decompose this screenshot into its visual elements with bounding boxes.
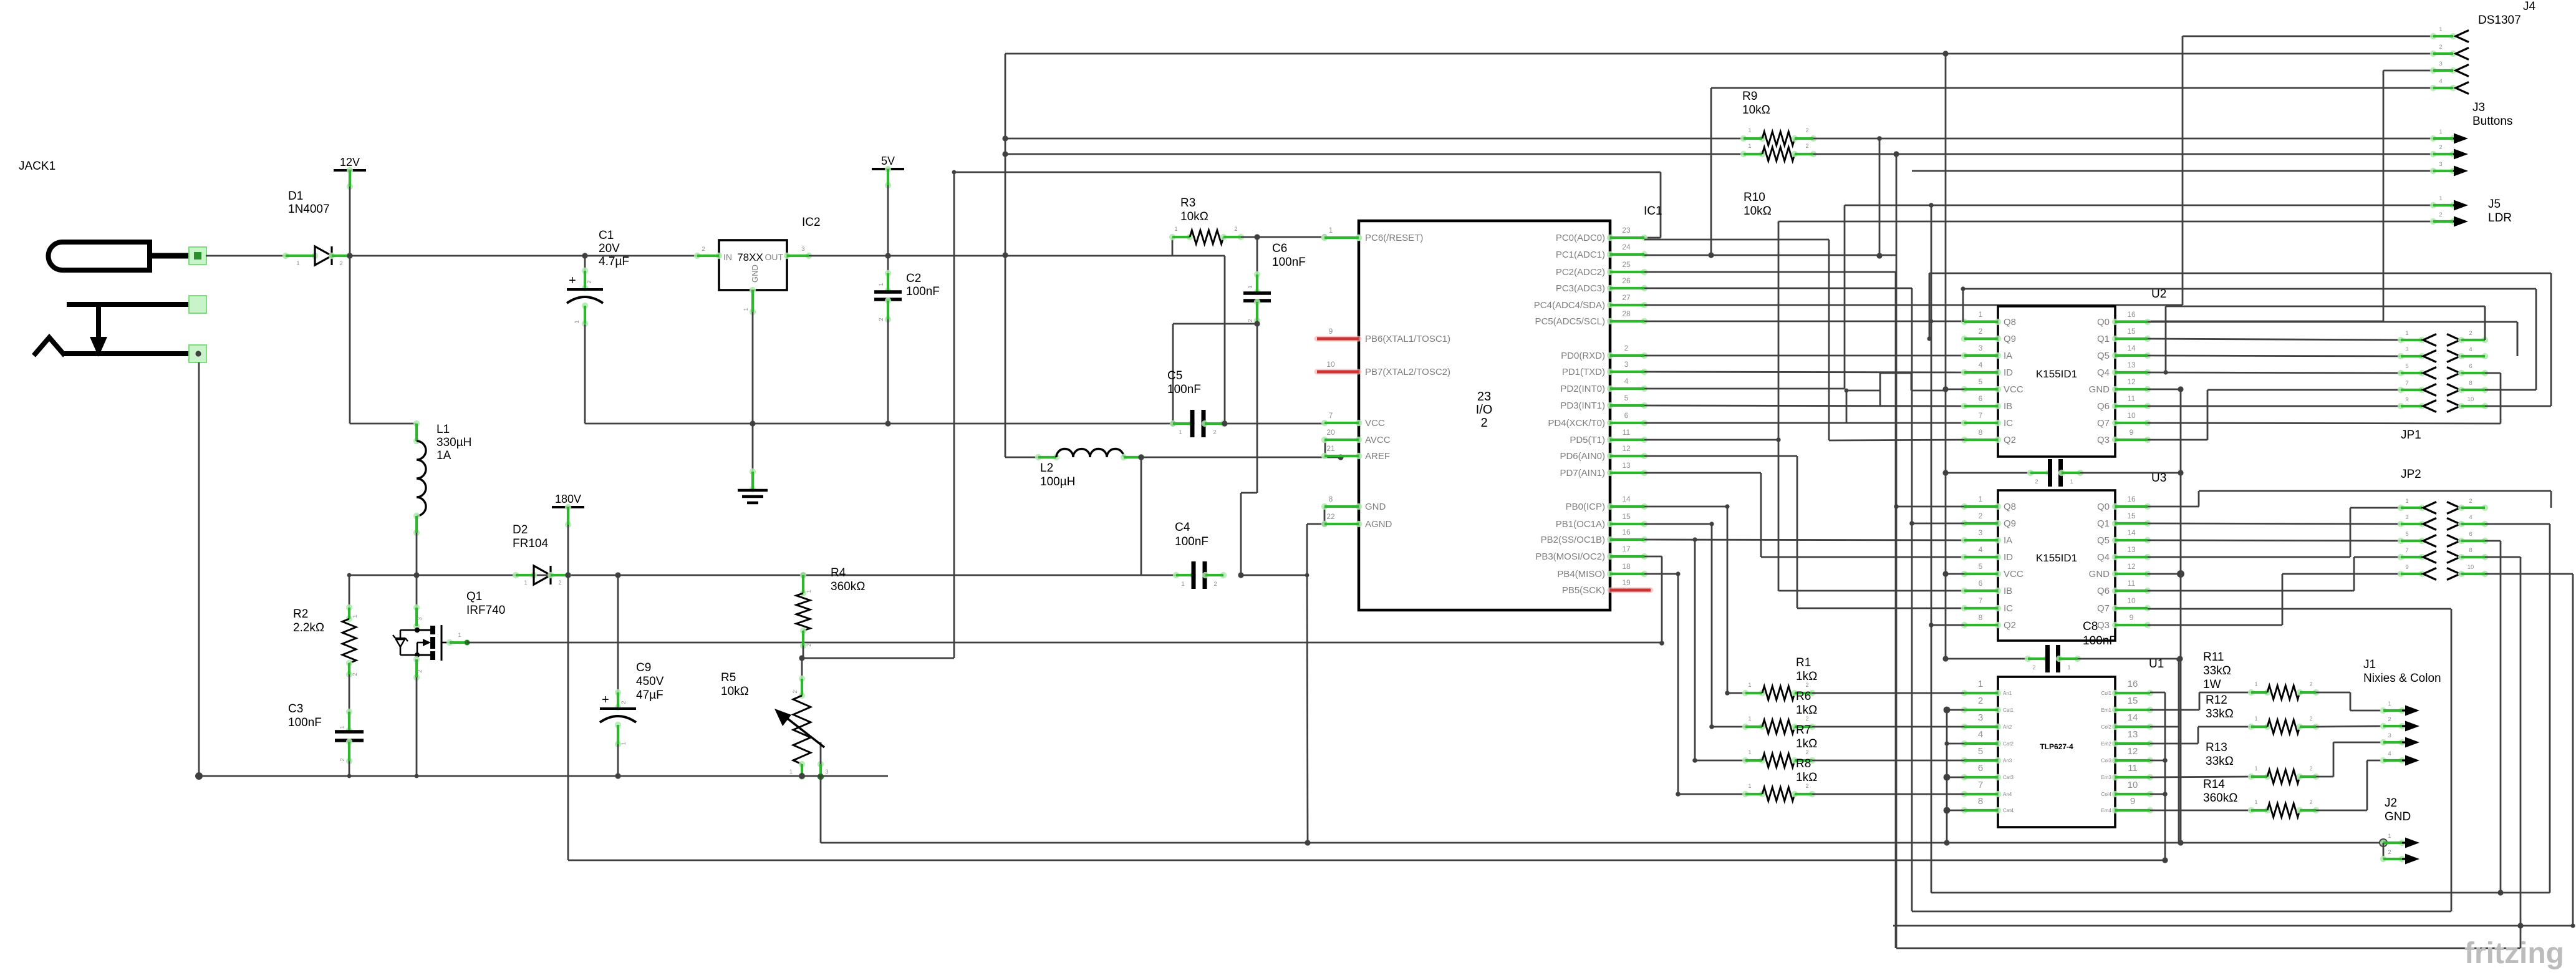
pin 2 U2 Q9 xyxy=(1961,336,1967,342)
svg-text:28: 28 xyxy=(1622,309,1631,318)
wire L1 to boost node xyxy=(416,533,418,575)
wire C6 to gnd loop xyxy=(1173,323,1257,325)
svg-text:1kΩ: 1kΩ xyxy=(1796,737,1817,750)
svg-text:R7: R7 xyxy=(1796,724,1811,737)
svg-text:1: 1 xyxy=(1979,310,1983,319)
wire PC4 to J4.1 xyxy=(1644,304,2183,306)
svg-text:5: 5 xyxy=(1978,746,1983,757)
wire PD2 to J5.1 xyxy=(1644,388,1845,390)
wire PC5 loop down xyxy=(1931,205,1932,893)
pin 15 U1 Em1 xyxy=(2112,707,2118,713)
wire VCC feed xyxy=(1225,423,1324,425)
svg-text:PD4(XCK/T0): PD4(XCK/T0) xyxy=(1548,418,1605,429)
pin 15 PB1(OC1A) xyxy=(1607,521,1613,527)
svg-text:C2: C2 xyxy=(906,272,921,285)
svg-text:1: 1 xyxy=(1181,581,1184,588)
svg-text:IC1: IC1 xyxy=(1644,205,1662,218)
wire bottom loop 3 xyxy=(1893,925,2573,927)
svg-text:1A: 1A xyxy=(437,449,451,462)
node C5 5V junction xyxy=(1222,420,1227,426)
svg-text:2: 2 xyxy=(1805,749,1808,756)
pin 7 U3 IC xyxy=(1961,605,1967,611)
svg-text:1: 1 xyxy=(2067,664,2070,671)
pin 2 J3 xyxy=(2430,151,2436,157)
svg-text:GND: GND xyxy=(2089,569,2110,580)
svg-text:33kΩ: 33kΩ xyxy=(2206,707,2234,720)
svg-text:100µH: 100µH xyxy=(1040,475,1075,488)
svg-text:Q2: Q2 xyxy=(2004,620,2016,631)
wire bottom gnd rail xyxy=(198,362,200,776)
wire PC2 loop xyxy=(1644,271,1896,273)
pin 4 J1 xyxy=(2380,757,2386,764)
svg-text:2: 2 xyxy=(1247,319,1254,322)
pin 5 PD3(INT1) xyxy=(1607,402,1613,409)
svg-text:Q3: Q3 xyxy=(2097,620,2110,631)
svg-text:100nF: 100nF xyxy=(1167,383,1201,396)
svg-text:11: 11 xyxy=(2128,579,2136,588)
svg-text:R9: R9 xyxy=(1742,90,1757,103)
svg-text:10: 10 xyxy=(2467,564,2474,571)
svg-text:2: 2 xyxy=(558,580,561,586)
wire U3 Q8 loop xyxy=(1896,506,1964,508)
svg-text:2: 2 xyxy=(1805,127,1808,134)
svg-text:R14: R14 xyxy=(2203,778,2225,791)
svg-text:3: 3 xyxy=(1978,712,1983,723)
pin 4 U3 ID xyxy=(1961,554,1967,560)
svg-text:78XX: 78XX xyxy=(737,251,763,263)
pin 1 J4 xyxy=(2430,33,2436,39)
svg-text:C4: C4 xyxy=(1175,521,1190,534)
wire R5 to cathode rail xyxy=(820,777,822,843)
wire Em4 to R14 xyxy=(2150,810,2251,812)
pin 10 JP1 xyxy=(2447,400,2460,412)
wire U3 Q3 to JP2.9 xyxy=(2148,624,2282,626)
wire PB4 to R8 xyxy=(1644,573,1678,575)
wire PD4 to U2 IC xyxy=(1644,422,1964,424)
svg-text:C3: C3 xyxy=(288,702,303,715)
svg-text:4: 4 xyxy=(2388,750,2391,757)
wire JP1.10 jog xyxy=(2485,405,2551,407)
svg-text:An1: An1 xyxy=(2003,691,2012,696)
svg-text:Em3: Em3 xyxy=(2101,775,2112,780)
pin 3 JP2 xyxy=(2398,521,2404,527)
wiper arrow xyxy=(782,714,824,747)
pin 14 U1 Col2 xyxy=(2112,724,2118,730)
svg-text:2: 2 xyxy=(2388,716,2391,723)
svg-text:2: 2 xyxy=(2032,664,2035,671)
svg-text:9: 9 xyxy=(2405,564,2408,571)
svg-text:PB6(XTAL1/TOSC1): PB6(XTAL1/TOSC1) xyxy=(1365,334,1450,344)
svg-text:R11: R11 xyxy=(2203,651,2224,664)
wire U2 Q2 out xyxy=(1829,440,1964,440)
node C4 gnd junction xyxy=(1238,572,1243,578)
pin 2 J4 xyxy=(2430,51,2436,57)
power symbol 180V xyxy=(552,506,584,508)
wire U2 Q4 to JP1.5 and JP1.2 xyxy=(2148,372,2401,373)
svg-text:D1: D1 xyxy=(288,190,303,203)
svg-text:4: 4 xyxy=(2439,78,2442,85)
wire PB1 to R6 xyxy=(1644,523,1712,525)
pin 16 U1 Col1 xyxy=(2112,690,2118,696)
svg-text:Q5: Q5 xyxy=(2097,535,2110,546)
pin 14 PB0(ICP) xyxy=(1607,503,1613,510)
svg-text:180V: 180V xyxy=(555,493,581,505)
pin 11 U1 Em3 xyxy=(2112,774,2118,780)
svg-text:Q8: Q8 xyxy=(2004,502,2016,512)
svg-text:Buttons: Buttons xyxy=(2472,115,2512,128)
node 12V junction xyxy=(347,253,352,258)
node D2 cathode junction xyxy=(565,572,571,578)
node AREF junction xyxy=(1338,454,1343,460)
node C5 gnd junction xyxy=(1170,420,1175,426)
svg-text:Q1: Q1 xyxy=(2097,334,2110,344)
pin 11 U2 Q6 xyxy=(2112,403,2118,409)
wire 5V vertical bus x1612 xyxy=(1005,54,1006,457)
svg-text:Col1: Col1 xyxy=(2101,691,2112,696)
pin 3 J4 xyxy=(2430,67,2436,74)
svg-text:1: 1 xyxy=(1329,226,1333,235)
pin 3 J3 xyxy=(2430,168,2436,174)
wire U2 Q0 to JP1.4 xyxy=(2148,321,2517,323)
svg-text:GND: GND xyxy=(1365,502,1386,512)
svg-text:100nF: 100nF xyxy=(1175,535,1208,548)
svg-text:U1: U1 xyxy=(2149,657,2164,671)
svg-text:7: 7 xyxy=(1979,411,1983,420)
pin 7 U1 An4 xyxy=(1961,791,1967,797)
svg-text:GND: GND xyxy=(750,264,760,283)
svg-text:GND: GND xyxy=(2385,810,2411,823)
svg-text:2: 2 xyxy=(1805,143,1808,150)
svg-text:1: 1 xyxy=(1978,679,1983,689)
svg-text:7: 7 xyxy=(2405,547,2408,554)
svg-text:J3: J3 xyxy=(2472,101,2485,114)
pin 4 PD2(INT0) xyxy=(1607,386,1613,392)
svg-text:PB4(MISO): PB4(MISO) xyxy=(1557,569,1605,580)
svg-text:C1: C1 xyxy=(599,229,614,242)
wire boost node rail xyxy=(349,575,1141,576)
svg-text:R4: R4 xyxy=(831,566,846,580)
pin 9 JP2 xyxy=(2398,571,2404,577)
svg-text:2: 2 xyxy=(1805,715,1808,722)
svg-text:6: 6 xyxy=(1624,411,1629,420)
svg-text:3: 3 xyxy=(825,769,828,775)
svg-text:1kΩ: 1kΩ xyxy=(1796,670,1817,683)
svg-text:PD1(TXD): PD1(TXD) xyxy=(1562,367,1605,377)
svg-text:PD3(INT1): PD3(INT1) xyxy=(1560,400,1605,411)
svg-text:2: 2 xyxy=(2309,715,2312,722)
svg-text:100nF: 100nF xyxy=(288,716,322,729)
pin 2 U3 Q9 xyxy=(1961,520,1967,526)
svg-text:1kΩ: 1kΩ xyxy=(1796,771,1817,784)
pin 5 U3 VCC xyxy=(1961,571,1967,577)
svg-text:2: 2 xyxy=(2439,144,2442,151)
svg-text:13: 13 xyxy=(2128,729,2138,740)
pin 18 PB4(MISO) xyxy=(1607,571,1613,577)
svg-text:7: 7 xyxy=(1978,780,1983,790)
gnd bus vertical xyxy=(2180,389,2182,843)
svg-text:25: 25 xyxy=(1622,260,1631,269)
pin 13 U3 Q4 xyxy=(2112,554,2118,560)
wire 180V anode rail xyxy=(568,860,2165,861)
pin 6 U3 IB xyxy=(1961,588,1967,594)
pin 8 U3 Q2 xyxy=(1961,622,1967,628)
svg-text:17: 17 xyxy=(1622,545,1631,553)
wire jack tip to D1 xyxy=(206,255,301,257)
pin 15 U3 Q1 xyxy=(2112,520,2118,526)
svg-text:1: 1 xyxy=(339,725,346,729)
pin 7 VCC xyxy=(1321,420,1328,426)
pin 6 U2 IB xyxy=(1961,403,1967,409)
svg-text:Em4: Em4 xyxy=(2101,808,2112,813)
svg-text:R6: R6 xyxy=(1796,690,1811,703)
pin 3 U2 IA xyxy=(1961,352,1967,359)
svg-text:C8: C8 xyxy=(2083,620,2098,633)
svg-text:J5: J5 xyxy=(2488,198,2501,211)
wire U2 Q1 to JP1.1 xyxy=(2148,339,2401,340)
pin 6 JP2 xyxy=(2447,535,2460,547)
wire C4 to AGND xyxy=(1241,575,1307,576)
svg-text:PB0(ICP): PB0(ICP) xyxy=(1566,502,1605,512)
pin 1 JP2 xyxy=(2398,505,2404,511)
pin 5 U1 An3 xyxy=(1961,757,1967,764)
pin 25 PC2(ADC2) xyxy=(1607,269,1613,275)
svg-text:1: 1 xyxy=(2388,701,2391,707)
svg-text:2: 2 xyxy=(1480,416,1487,430)
svg-text:DS1307: DS1307 xyxy=(2478,14,2521,27)
wire 5V to R10 xyxy=(1005,153,1744,155)
wire J3.1 to PC1 xyxy=(1879,138,1881,256)
wire U2 Q8 over xyxy=(1962,289,1964,322)
pin 21 AREF xyxy=(1321,453,1328,459)
node gnd rail junction xyxy=(750,420,755,426)
svg-text:IRF740: IRF740 xyxy=(466,604,505,617)
pin 14 U2 Q5 xyxy=(2112,352,2118,359)
pin 12 U3 GND xyxy=(2112,571,2118,577)
pin 3 PD1(TXD) xyxy=(1607,369,1613,375)
svg-text:16: 16 xyxy=(2127,495,2136,503)
wire U2 VCC bus xyxy=(1945,54,1947,659)
pin 2 JP1 xyxy=(2447,334,2460,346)
svg-text:Q2: Q2 xyxy=(2004,435,2016,445)
pin 11 PD5(T1) xyxy=(1607,437,1613,443)
svg-text:9: 9 xyxy=(1329,327,1333,336)
svg-text:An2: An2 xyxy=(2003,724,2012,730)
svg-text:IB: IB xyxy=(2004,401,2012,412)
wire U3 Q2 loop xyxy=(1931,624,1964,626)
node 5V junction xyxy=(885,253,890,258)
pin 1 U3 Q8 xyxy=(1961,503,1967,510)
pin 1 J1 xyxy=(2380,707,2386,714)
svg-text:1: 1 xyxy=(2070,478,2073,485)
pin 1 PC6(/RESET) xyxy=(1321,235,1328,241)
svg-text:+: + xyxy=(569,274,576,288)
svg-text:100nF: 100nF xyxy=(2083,634,2116,648)
svg-text:4.7µF: 4.7µF xyxy=(599,255,629,268)
wire 12V to node xyxy=(349,187,351,256)
svg-text:PB1(OC1A): PB1(OC1A) xyxy=(1556,519,1605,530)
svg-text:1: 1 xyxy=(2254,715,2257,722)
pin 10 PB7(XTAL2/TOSC2) xyxy=(1317,369,1359,375)
svg-text:2.2kΩ: 2.2kΩ xyxy=(293,621,324,634)
svg-text:Q8: Q8 xyxy=(2004,317,2016,327)
pin 2 J2 xyxy=(2383,843,2385,859)
wire gate to OC2 xyxy=(467,642,1662,644)
svg-text:R5: R5 xyxy=(721,671,736,684)
wire PD6 to U3 IC xyxy=(1644,455,1797,457)
pin 15 U2 Q1 xyxy=(2112,336,2118,342)
svg-text:6: 6 xyxy=(2469,531,2472,538)
svg-text:+: + xyxy=(602,693,609,707)
svg-text:1: 1 xyxy=(1748,127,1751,134)
svg-text:2: 2 xyxy=(1805,682,1808,689)
svg-text:4: 4 xyxy=(2469,346,2472,353)
svg-text:2: 2 xyxy=(417,669,423,672)
pin 1 J2 xyxy=(2379,838,2388,847)
svg-text:2: 2 xyxy=(1213,581,1217,588)
svg-text:GND: GND xyxy=(2089,384,2110,395)
svg-text:10: 10 xyxy=(2127,411,2136,420)
svg-text:Q6: Q6 xyxy=(2097,401,2110,412)
node bottom-left corner xyxy=(195,772,203,780)
svg-text:U3: U3 xyxy=(2151,472,2166,485)
svg-text:12: 12 xyxy=(2128,746,2138,757)
wire JP2.4 riser xyxy=(2485,523,2550,525)
wire U2 GND xyxy=(2148,389,2181,390)
svg-text:1: 1 xyxy=(2405,498,2408,505)
wire U2 Q6 to JP1.9 xyxy=(2148,405,2401,407)
svg-text:13: 13 xyxy=(2127,361,2136,369)
svg-text:5: 5 xyxy=(1624,394,1629,402)
wire PB2 to R7 and U3 IA xyxy=(1644,540,1964,540)
wire IC2 gnd down xyxy=(752,312,754,478)
wire JP2.10 riser xyxy=(2485,573,2573,575)
svg-text:VCC: VCC xyxy=(2004,569,2024,580)
svg-text:450V: 450V xyxy=(636,675,664,688)
svg-text:2: 2 xyxy=(339,758,346,761)
wire IC2 out to 5V rail xyxy=(809,255,1225,257)
power symbol 5V xyxy=(872,168,904,170)
jack ring contact xyxy=(67,302,195,307)
svg-text:19: 19 xyxy=(1622,578,1631,587)
pin 16 PB2(SS/OC1B) xyxy=(1607,536,1613,543)
svg-text:PD2(INT0): PD2(INT0) xyxy=(1560,384,1605,394)
svg-text:12: 12 xyxy=(2127,377,2136,386)
svg-text:PD7(AIN1): PD7(AIN1) xyxy=(1560,468,1605,478)
svg-text:3: 3 xyxy=(1624,360,1629,369)
svg-text:16: 16 xyxy=(1622,528,1631,536)
pin 2 J5 xyxy=(2430,218,2436,225)
svg-text:8: 8 xyxy=(1329,495,1333,503)
svg-text:7: 7 xyxy=(1329,411,1333,420)
pin 8 JP2 xyxy=(2447,551,2460,563)
svg-text:5: 5 xyxy=(2405,531,2408,538)
wire JP1.4 riser xyxy=(2517,322,2519,356)
svg-text:2: 2 xyxy=(352,672,359,676)
ground symbol xyxy=(750,468,756,475)
pin 9 U1 Em4 xyxy=(2112,807,2118,813)
pin 7 JP2 xyxy=(2398,554,2404,560)
wire J3.2 net down to PC2 xyxy=(1896,154,1898,948)
svg-text:1: 1 xyxy=(2405,330,2408,337)
pin 3 JP1 xyxy=(2398,353,2404,359)
svg-text:Q4: Q4 xyxy=(2097,552,2110,563)
pin 6 JP1 xyxy=(2447,367,2460,379)
svg-text:5V: 5V xyxy=(881,155,895,167)
svg-text:1: 1 xyxy=(2254,681,2257,688)
node C6 bottom xyxy=(1254,321,1260,326)
svg-text:9: 9 xyxy=(2130,613,2134,622)
svg-text:Q0: Q0 xyxy=(2097,502,2110,512)
svg-text:2: 2 xyxy=(1979,327,1983,336)
node C1 junction xyxy=(582,253,587,258)
svg-text:12: 12 xyxy=(2127,562,2136,571)
node L1 junction xyxy=(413,572,419,578)
wire PC5 to J4.3 xyxy=(1644,321,2383,323)
wire R8 to U1 xyxy=(1812,793,1964,795)
svg-text:L2: L2 xyxy=(1040,462,1053,475)
pin 10 U2 Q7 xyxy=(2112,420,2118,426)
svg-text:3: 3 xyxy=(801,246,804,253)
node C2 gnd junction xyxy=(885,420,890,426)
svg-text:Col2: Col2 xyxy=(2101,724,2112,730)
svg-text:10: 10 xyxy=(1326,360,1335,369)
pin 6 PD4(XCK/T0) xyxy=(1607,420,1613,426)
svg-text:2: 2 xyxy=(702,246,705,253)
svg-text:360kΩ: 360kΩ xyxy=(2203,792,2237,805)
svg-text:Q6: Q6 xyxy=(2097,586,2110,596)
svg-text:LDR: LDR xyxy=(2488,211,2512,225)
svg-text:Q7: Q7 xyxy=(2097,603,2110,614)
svg-text:10kΩ: 10kΩ xyxy=(1742,104,1770,117)
wire PC0 extension to U2 Q2 xyxy=(1644,239,1829,241)
svg-text:Q5: Q5 xyxy=(2097,351,2110,361)
pin 28 PC5(ADC5/SCL) xyxy=(1607,318,1613,324)
svg-text:1: 1 xyxy=(2439,26,2442,33)
wire PC1 to J4.4 xyxy=(1644,255,1896,256)
svg-text:1: 1 xyxy=(1748,749,1751,756)
pin 16 U2 Q0 xyxy=(2112,319,2118,325)
svg-text:IA: IA xyxy=(2004,535,2012,546)
svg-text:12: 12 xyxy=(1622,444,1631,453)
svg-text:21: 21 xyxy=(1326,444,1335,453)
wire Em3 to R13 xyxy=(2150,777,2251,777)
node R10 junction xyxy=(1893,151,1899,157)
pin 4 U2 ID xyxy=(1961,369,1967,376)
svg-text:13: 13 xyxy=(1622,461,1631,470)
wire bottom loop 1 xyxy=(1931,892,2550,894)
svg-text:33kΩ: 33kΩ xyxy=(2206,755,2234,768)
pin 9 PB6(XTAL1/TOSC1) xyxy=(1317,336,1359,342)
wire U3 GND xyxy=(2148,573,2181,575)
svg-text:1: 1 xyxy=(2254,799,2257,806)
svg-text:2: 2 xyxy=(1213,429,1216,436)
pin 7 JP1 xyxy=(2398,387,2404,393)
pin 2 J1 xyxy=(2380,723,2386,729)
svg-text:PB7(XTAL2/TOSC2): PB7(XTAL2/TOSC2) xyxy=(1365,367,1450,377)
pin 26 PC3(ADC3) xyxy=(1607,285,1613,291)
pin 1 U2 Q8 xyxy=(1961,319,1967,325)
svg-text:8: 8 xyxy=(1979,428,1983,437)
svg-text:2: 2 xyxy=(2309,681,2312,688)
svg-text:C9: C9 xyxy=(636,661,651,674)
svg-text:2: 2 xyxy=(2469,498,2472,505)
svg-text:IC: IC xyxy=(2004,603,2013,614)
wire bottom loop 2 xyxy=(1912,911,2451,913)
svg-text:1: 1 xyxy=(1247,285,1254,288)
wire 5V drop to VCC xyxy=(1224,256,1226,424)
svg-text:2: 2 xyxy=(586,280,593,283)
svg-text:PD0(RXD): PD0(RXD) xyxy=(1561,351,1605,361)
